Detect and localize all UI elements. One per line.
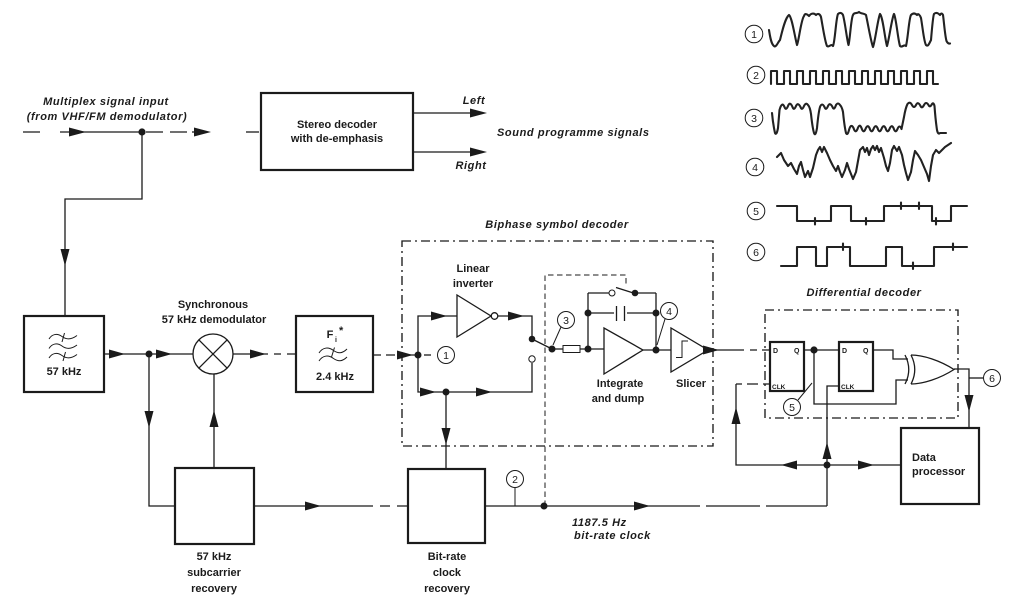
op-amp: integrator [604, 328, 643, 374]
wire: down to bit-rate clock recovery [442, 392, 451, 469]
svg-text:Integrate: Integrate [597, 378, 643, 390]
svg-text:4: 4 [666, 306, 672, 318]
waveform 1: biphase modulated carrier [769, 12, 950, 47]
node 1 [424, 347, 455, 364]
wire: subcarrier recovery to mixer carrier input [210, 374, 219, 468]
wire: F1 output into biphase decoder [373, 351, 418, 360]
svg-text:4: 4 [752, 162, 758, 174]
dashed box: Differential decoder [765, 287, 958, 418]
wire: node down to subcarrier recovery [145, 354, 176, 506]
svg-text:Sound programme signals: Sound programme signals [497, 127, 650, 139]
node 6 [984, 370, 1001, 387]
svg-text:3: 3 [563, 315, 569, 327]
wire: integrator output [643, 349, 671, 351]
junction: integrator input node [585, 346, 592, 353]
block: 57 kHz subcarrier recovery [175, 468, 254, 595]
svg-text:57 kHz demodulator: 57 kHz demodulator [162, 314, 267, 326]
junction: clock/control node [541, 503, 548, 510]
svg-text:Slicer: Slicer [676, 378, 707, 390]
label: Linear inverter [453, 263, 494, 290]
svg-text:Stereo decoder: Stereo decoder [297, 119, 378, 131]
wire: inverter output to switch top contact [498, 312, 532, 340]
svg-text:Linear: Linear [456, 263, 490, 275]
node 3 [553, 312, 575, 346]
block: Stereo decoder with de-emphasis [261, 93, 413, 170]
svg-text:Right: Right [455, 160, 487, 172]
wire: Right output [413, 148, 487, 173]
block: F1 2.4 kHz low-pass filter [296, 316, 373, 392]
wire: multiplex input line [23, 128, 259, 137]
junction: multiplex branch node [138, 128, 145, 135]
svg-text:inverter: inverter [453, 278, 494, 290]
svg-text:Q: Q [863, 348, 869, 355]
waveform 4: integrator ramp output [777, 143, 951, 181]
svg-text:(from VHF/FM demodulator): (from VHF/FM demodulator) [27, 111, 187, 123]
svg-text:Data: Data [912, 452, 937, 464]
wire: lower bypass branch [418, 355, 532, 397]
svg-text:recovery: recovery [424, 583, 471, 595]
op-amp: linear inverter triangle [457, 295, 498, 337]
mixer: synchronous demodulator [162, 299, 267, 374]
svg-text:Biphase symbol decoder: Biphase symbol decoder [485, 219, 629, 231]
svg-text:Multiplex signal input: Multiplex signal input [43, 96, 169, 108]
svg-text:i: i [335, 337, 337, 344]
waveform 3: demodulated biphase signal [772, 103, 946, 135]
capacitor: integrator feedback [585, 306, 660, 321]
flip-flop U2 [839, 342, 873, 391]
svg-text:recovery: recovery [191, 583, 238, 595]
svg-text:*: * [339, 325, 344, 337]
svg-text:2.4 kHz: 2.4 kHz [316, 371, 354, 383]
wire: upper branch to inverter [418, 312, 457, 356]
gate: XOR [905, 355, 954, 384]
svg-text:2: 2 [753, 70, 759, 82]
node marker 4 [746, 158, 764, 176]
svg-text:with de-emphasis: with de-emphasis [290, 133, 383, 145]
junction: lower branch node to bit-rate recovery [443, 389, 450, 396]
dashed box: Biphase symbol decoder [402, 219, 713, 446]
wire: U1 Q to U2 D [804, 349, 839, 351]
wire: node to XOR lower input [814, 350, 908, 404]
svg-text:3: 3 [751, 113, 757, 125]
svg-text:D: D [773, 348, 778, 355]
wire: bit-rate clock output line [485, 502, 825, 511]
wire: XOR output to node 6 and data processor [954, 369, 983, 428]
wire: feedback loop right vertical [655, 293, 657, 350]
svg-text:and dump: and dump [592, 393, 645, 405]
flip-flop U1 [770, 342, 804, 391]
waveform 5: decoded NRZ data [777, 203, 967, 225]
node marker 2 [747, 66, 765, 84]
svg-text:5: 5 [789, 402, 795, 414]
svg-text:6: 6 [753, 247, 759, 259]
wire: branch down to 57 kHz filter [61, 132, 143, 316]
svg-text:D: D [842, 348, 847, 355]
waveform 2: 57 kHz square subcarrier clock [771, 71, 938, 84]
wire: clock to data processor [827, 461, 901, 470]
svg-text:57 kHz: 57 kHz [47, 366, 82, 378]
svg-text:F: F [327, 329, 334, 341]
svg-text:CLK: CLK [772, 384, 786, 391]
wire: Left output [413, 95, 487, 118]
node 5 [784, 383, 813, 416]
wire: mixer output to F1 filter [233, 350, 296, 359]
junction: filter output node [146, 351, 153, 358]
wire: clock riser to differential decoder [823, 386, 840, 506]
block: Bit-rate clock recovery [408, 469, 485, 595]
dashed control line: bit clock to dump switch [545, 275, 626, 506]
junction: clock distribution node [824, 462, 831, 469]
switch: dump switch [588, 288, 656, 297]
label: 1187.5 Hz bit-rate clock [572, 517, 651, 542]
label: Multiplex signal input [27, 96, 187, 123]
node marker 6 [747, 243, 765, 261]
svg-text:Left: Left [463, 95, 486, 107]
svg-text:2: 2 [512, 474, 518, 486]
node 2 [507, 471, 524, 507]
svg-text:CLK: CLK [841, 384, 855, 391]
svg-text:6: 6 [989, 373, 995, 385]
svg-text:57 kHz: 57 kHz [197, 551, 232, 563]
svg-text:Q: Q [794, 348, 800, 355]
junction: biphase input node [415, 352, 422, 359]
switch: biphase polarity selector [529, 336, 556, 362]
svg-text:Differential decoder: Differential decoder [806, 287, 921, 299]
wire: U2 Q to XOR upper input [873, 350, 908, 359]
node 4 [657, 303, 678, 346]
svg-text:Bit-rate: Bit-rate [428, 551, 467, 563]
svg-text:bit-rate clock: bit-rate clock [574, 530, 651, 542]
comparator: slicer [671, 328, 708, 390]
wire: slicer output to differential decoder [703, 346, 770, 355]
svg-text:subcarrier: subcarrier [187, 567, 242, 579]
node marker 5 [747, 202, 765, 220]
wire: feedback loop left vertical [587, 293, 589, 349]
block: Data processor [901, 428, 979, 504]
junction: U1 output node [810, 346, 817, 353]
svg-text:1187.5 Hz: 1187.5 Hz [572, 517, 627, 529]
wire: subcarrier recovery to bit-rate clock recovery [254, 502, 408, 511]
resistor: series element [552, 346, 604, 353]
svg-text:5: 5 [753, 206, 759, 218]
block: 57 kHz bandpass filter [24, 316, 104, 392]
svg-text:Synchronous: Synchronous [178, 299, 248, 311]
node marker 3 [745, 109, 763, 127]
wire: clock to U1 CLK [732, 384, 828, 470]
waveform 6: differentially decoded data [781, 244, 967, 270]
svg-text:clock: clock [433, 567, 462, 579]
node marker 1 [745, 25, 763, 43]
junction: integrator output node [653, 347, 660, 354]
svg-text:1: 1 [443, 350, 449, 362]
svg-text:1: 1 [751, 29, 757, 41]
svg-text:processor: processor [912, 466, 966, 478]
wire: filter output to mixer [104, 350, 193, 359]
